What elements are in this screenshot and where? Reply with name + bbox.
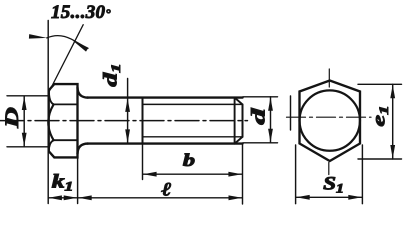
svg-text:d1: d1 [100, 63, 123, 86]
label d [247, 108, 269, 125]
dimension D extension bottom [7, 146, 48, 148]
node centerline main view [0, 120, 248, 122]
bolt end face [235, 98, 243, 144]
thread start line [142, 98, 144, 144]
dimension b line [143, 173, 242, 175]
label e1 [368, 105, 391, 126]
extension line thread start below [142, 144, 144, 180]
dimension S1 left arrow [296, 195, 310, 200]
dimension S1 right arrow [348, 195, 362, 200]
short vertical line left of hexagon [290, 96, 292, 130]
dimension D line [23, 96, 25, 146]
bolt head outline [49, 84, 78, 157]
extension line head outer face (angle and k1) [47, 21, 49, 204]
dimension e1 extension bottom [358, 158, 402, 160]
dimension d line [270, 97, 272, 143]
dimension d up arrow [268, 97, 273, 111]
vertical centerline tick bottom end view [328, 163, 330, 175]
svg-text:S1: S1 [323, 172, 344, 196]
bolt head top facet arc [49, 91, 54, 105]
bolt head facet line lower [54, 139, 78, 141]
bolt end chamfer line [234, 98, 236, 144]
shank top outline [87, 96, 243, 98]
chamfer angle dimension arc [47, 36, 88, 49]
thread minor diameter bottom line [143, 136, 242, 138]
dimension S1 extension left [295, 145, 297, 204]
node centerline end view horizontal [287, 116, 372, 118]
chamfer angle inclined line [49, 25, 83, 92]
hexagon head end view [300, 81, 361, 162]
dimension e1 extension top [358, 83, 402, 85]
extension line bolt end below [242, 144, 244, 204]
dimension S1 extension right [361, 145, 363, 204]
dimension d1 up arrow [125, 98, 130, 112]
dimension d extension top [243, 96, 278, 98]
label D [2, 107, 23, 129]
dimension l line [78, 197, 242, 199]
fillet under head top [78, 88, 89, 98]
dimension D extension top [7, 95, 48, 97]
bolt head bottom facet arc [49, 140, 54, 151]
svg-text:b: b [183, 150, 196, 170]
label S1 [323, 172, 344, 196]
svg-text:d: d [247, 108, 269, 125]
svg-text:e1: e1 [368, 105, 391, 126]
thread minor diameter top line [143, 103, 242, 105]
dimension e1 up arrow [390, 85, 395, 99]
dimension l right arrow [229, 195, 243, 200]
svg-text:ℓ: ℓ [161, 179, 171, 200]
dimension D down arrow [22, 133, 27, 147]
dimension k1 line [48, 197, 77, 199]
shank bottom outline [87, 142, 243, 144]
dimension d extension bottom [243, 142, 278, 144]
label k1 [52, 171, 74, 194]
dimension l left arrow [78, 195, 92, 200]
label l [161, 179, 171, 200]
dimension k1 right arrow [64, 195, 77, 200]
dimension b right arrow [228, 172, 242, 177]
extension line bearing face below head [77, 157, 79, 203]
vertical centerline tick top end view [328, 69, 330, 87]
svg-text:k1: k1 [52, 171, 74, 194]
bolt head facet line upper [54, 103, 78, 105]
fillet under head bottom [78, 144, 89, 154]
dimension d down arrow [268, 129, 273, 143]
svg-text:D: D [2, 107, 23, 129]
chamfer angle right arrow [73, 41, 89, 52]
dimension D up arrow [22, 96, 27, 110]
chamfer angle left arrow [29, 34, 47, 39]
label d1 [100, 63, 123, 86]
dimension e1 line [392, 84, 394, 159]
dimension k1 left arrow [48, 195, 62, 200]
dimension d1 line [127, 79, 129, 144]
label b [183, 150, 196, 170]
bolt head middle facet arc [48, 104, 53, 140]
dimension e1 down arrow [390, 145, 395, 159]
dimension d1 down arrow [125, 129, 130, 143]
dimension S1 line [296, 196, 362, 198]
dimension b left arrow [143, 172, 157, 177]
svg-text:15...30°: 15...30° [51, 2, 111, 23]
inscribed chamfer circle end view [300, 90, 360, 150]
